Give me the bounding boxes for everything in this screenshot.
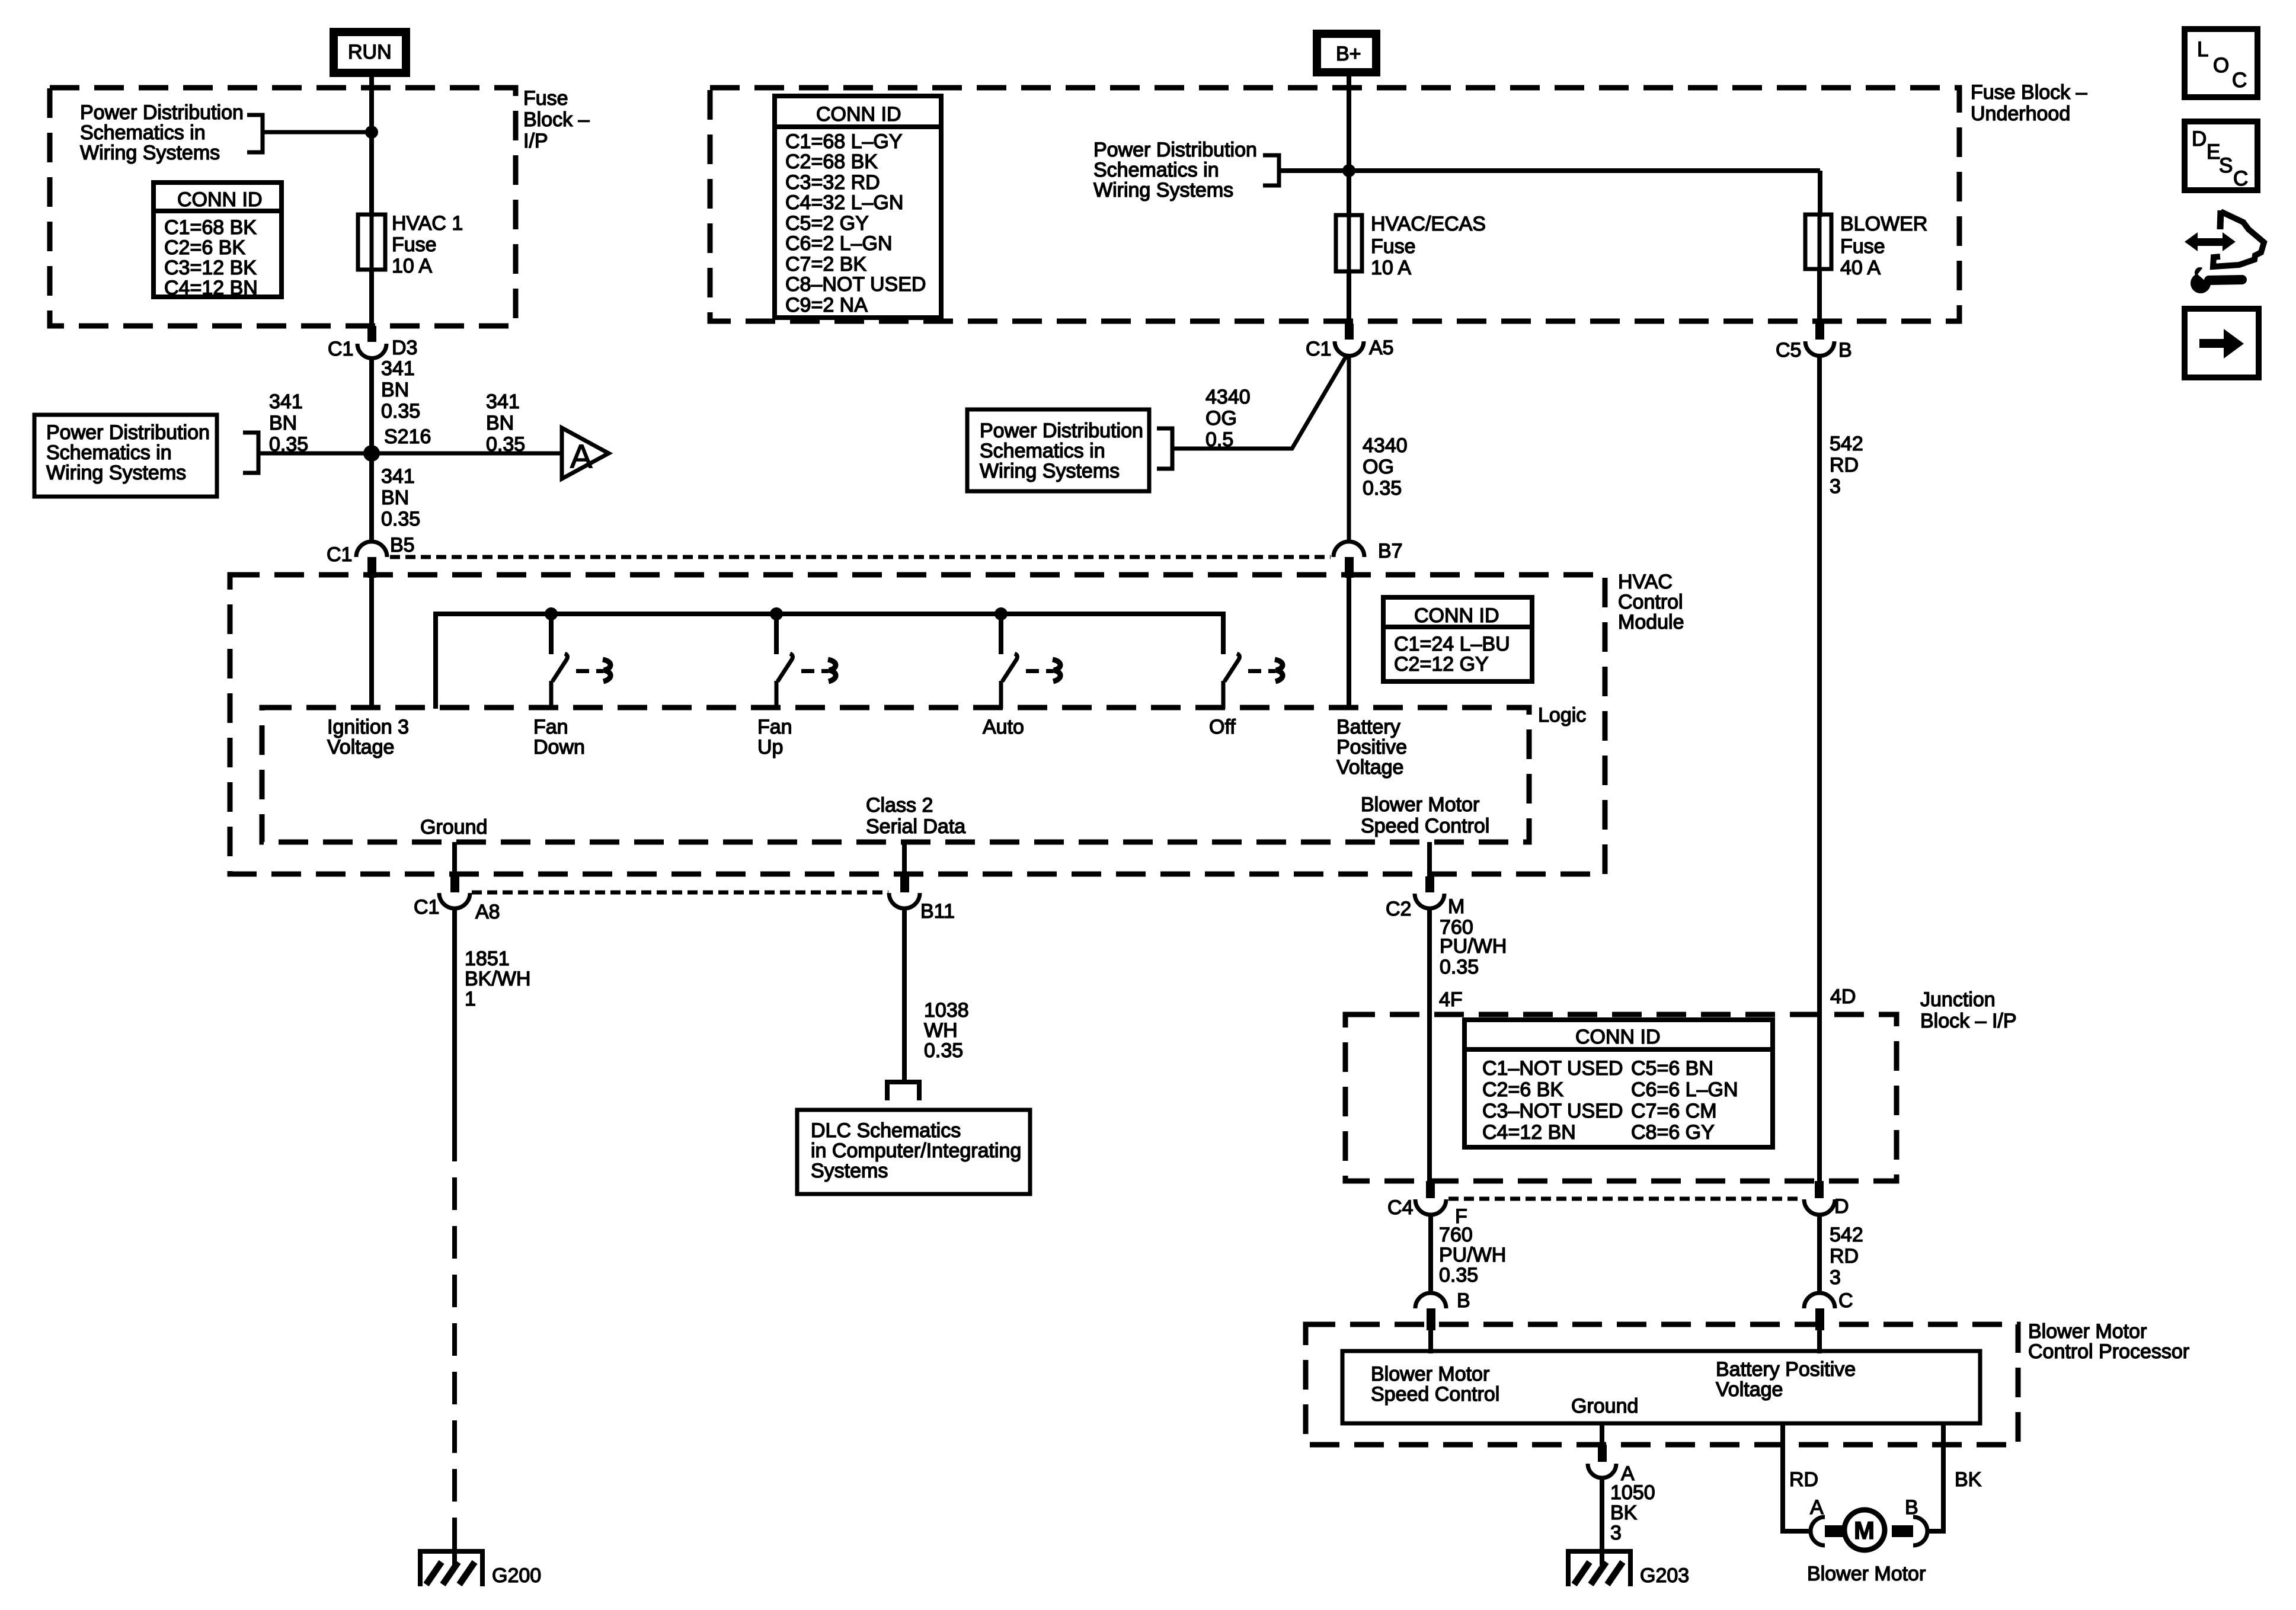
junction block I/P dashed box: [1345, 1014, 1897, 1181]
wire label 542 RD 3 upper: [1830, 433, 1863, 498]
connector C dome: [1804, 1293, 1835, 1308]
svg-text:341: 341: [381, 357, 415, 380]
svg-text:Power Distribution: Power Distribution: [1093, 139, 1257, 161]
svg-text:OG: OG: [1363, 456, 1394, 478]
blower motor speed control label: [1361, 793, 1489, 837]
connector D cup: [1804, 1199, 1835, 1215]
svg-text:C: C: [1838, 1289, 1853, 1312]
junction dot fan up: [770, 607, 783, 620]
svg-text:3: 3: [1610, 1522, 1622, 1544]
svg-text:C1: C1: [328, 338, 353, 360]
svg-text:Wiring Systems: Wiring Systems: [1093, 179, 1233, 201]
svg-text:341: 341: [486, 391, 520, 413]
svg-text:341: 341: [381, 465, 415, 488]
blower motor M: [1807, 1510, 1926, 1585]
svg-text:C: C: [2233, 167, 2248, 190]
svg-text:542: 542: [1830, 1224, 1863, 1246]
svg-text:C1: C1: [327, 543, 352, 566]
svg-text:BN: BN: [269, 412, 297, 434]
svg-text:BK: BK: [1955, 1468, 1982, 1491]
svg-text:D3: D3: [392, 337, 417, 359]
svg-text:Blower Motor: Blower Motor: [2028, 1320, 2147, 1343]
svg-text:1851: 1851: [465, 948, 510, 970]
svg-text:4D: 4D: [1830, 985, 1856, 1008]
svg-text:C4: C4: [1387, 1196, 1413, 1219]
svg-text:0.35: 0.35: [486, 433, 525, 456]
dotted harness line A8 to B11: [472, 891, 888, 895]
svg-text:Blower Motor: Blower Motor: [1361, 793, 1479, 816]
wire RD to blower motor: [1783, 1423, 1811, 1531]
wire A to G203: [1600, 1478, 1604, 1565]
fuse block underhood dashed box: [710, 88, 1959, 321]
wire B11 to DLC bracket: [902, 908, 907, 1083]
wire label 341 BN 0.35 below D3: [381, 357, 420, 422]
svg-text:C5=2 GY: C5=2 GY: [785, 212, 869, 235]
svg-text:BK: BK: [1610, 1502, 1638, 1524]
svg-text:Underhood: Underhood: [1971, 103, 2070, 125]
svg-text:A5: A5: [1369, 337, 1394, 359]
svg-text:BN: BN: [381, 486, 409, 509]
svg-text:Wiring Systems: Wiring Systems: [80, 142, 220, 164]
blower motor control processor dashed box: [1306, 1324, 2018, 1445]
svg-text:Schematics in: Schematics in: [80, 121, 206, 144]
svg-text:0.35: 0.35: [1440, 956, 1479, 978]
connector C5 B pin: [1815, 324, 1824, 340]
svg-text:4340: 4340: [1205, 386, 1251, 408]
bracket left power dist box: [243, 433, 258, 473]
svg-text:542: 542: [1830, 433, 1863, 455]
dotted harness line B5 to B7: [390, 555, 1331, 559]
wire fuse to connector D3: [369, 270, 374, 326]
svg-text:Ground: Ground: [1571, 1395, 1638, 1417]
icon forward arrow box: [2185, 309, 2259, 377]
processor pin labels: [1371, 1363, 1499, 1406]
svg-text:C4=32 L–GN: C4=32 L–GN: [785, 191, 903, 214]
svg-text:0.35: 0.35: [381, 508, 420, 530]
DLC bracket: [887, 1082, 919, 1100]
svg-text:Fan: Fan: [533, 716, 568, 738]
svg-text:Logic: Logic: [1538, 704, 1586, 726]
connector C1 A5 pin: [1345, 324, 1354, 340]
svg-text:CONN ID: CONN ID: [177, 188, 263, 211]
wire RUN box down to fuse: [369, 77, 374, 217]
RUN power feed box: [330, 28, 410, 77]
wires into processor box: [1428, 1330, 1433, 1353]
svg-text:OG: OG: [1205, 407, 1237, 430]
svg-text:Fuse: Fuse: [392, 233, 437, 256]
B+ power feed box: [1313, 30, 1380, 76]
connector C2 M cup: [1415, 894, 1444, 908]
svg-text:C6=2 L–GN: C6=2 L–GN: [785, 232, 893, 255]
connector C1 D3 pin: [367, 326, 376, 342]
power distribution box left (solid): [34, 415, 217, 497]
wire HVAC/ECAS fuse to A5: [1347, 271, 1351, 324]
svg-text:S216: S216: [384, 425, 431, 448]
dotted harness line C4 to D: [1448, 1197, 1802, 1201]
junction dot fan down: [545, 607, 558, 620]
ground G200: [420, 1551, 541, 1587]
svg-text:C2=68 BK: C2=68 BK: [785, 151, 878, 173]
svg-text:Schematics in: Schematics in: [46, 441, 172, 464]
connector C2 M pin: [1425, 876, 1434, 892]
svg-text:in Computer/Integrating: in Computer/Integrating: [811, 1140, 1021, 1162]
svg-text:S: S: [2219, 154, 2233, 177]
svg-text:RUN: RUN: [348, 41, 392, 63]
connector C1 A8 cup: [439, 893, 470, 908]
wire S216 to triangle A: [372, 452, 562, 456]
wire C5 down to D: [1817, 356, 1822, 1181]
svg-text:C1=24 L–BU: C1=24 L–BU: [1394, 633, 1510, 655]
wire A5 down to B7: [1347, 356, 1351, 542]
wire label 341 BN 0.35 right of S216: [486, 391, 525, 456]
wire label 760 PU/WH 0.35 lower: [1439, 1224, 1506, 1286]
svg-text:RD: RD: [1789, 1468, 1818, 1491]
fuse block underhood label: [1971, 81, 2087, 125]
svg-text:Wiring Systems: Wiring Systems: [980, 460, 1120, 482]
logic dashed box: [262, 708, 1529, 842]
svg-text:Voltage: Voltage: [327, 736, 394, 758]
svg-text:O: O: [2213, 54, 2229, 77]
wire D3 to splice S216: [369, 358, 374, 453]
svg-text:Junction: Junction: [1920, 988, 1996, 1011]
connector C4 F cup: [1415, 1199, 1446, 1215]
svg-text:Fuse: Fuse: [523, 87, 568, 110]
svg-text:10 A: 10 A: [1371, 257, 1411, 279]
svg-text:Wiring Systems: Wiring Systems: [46, 462, 186, 484]
connector B pin: [1427, 1308, 1435, 1330]
svg-text:E: E: [2207, 140, 2220, 164]
connector C pin: [1815, 1308, 1824, 1330]
svg-text:A: A: [1810, 1496, 1824, 1519]
svg-text:B: B: [1905, 1496, 1918, 1519]
svg-text:C2: C2: [1386, 898, 1411, 920]
wire BLOWER fuse to C5: [1817, 269, 1822, 324]
CONN ID table junction block: [1464, 1020, 1773, 1147]
svg-text:C1=68 BK: C1=68 BK: [164, 216, 257, 239]
svg-text:WH: WH: [924, 1019, 958, 1042]
svg-text:Serial Data: Serial Data: [866, 815, 965, 838]
svg-text:C2=6 BK: C2=6 BK: [164, 236, 245, 259]
bracket top-right callout: [1263, 155, 1279, 185]
BLOWER fuse: [1805, 213, 1927, 279]
svg-text:HVAC 1: HVAC 1: [392, 212, 463, 235]
fuse block I/P dashed box: [50, 88, 516, 326]
svg-text:3: 3: [1830, 1266, 1841, 1289]
svg-text:C1: C1: [414, 896, 439, 918]
svg-text:1: 1: [465, 988, 476, 1010]
svg-text:C2=6 BK: C2=6 BK: [1482, 1078, 1563, 1101]
wire label 1050 BK 3: [1610, 1481, 1655, 1544]
junction dot auto: [994, 607, 1008, 620]
svg-text:C5=6 BN: C5=6 BN: [1631, 1057, 1713, 1080]
battery positive voltage label: [1336, 716, 1407, 779]
bracket top-left callout: [247, 115, 263, 152]
icon diagnostic arrows and wrench: [2185, 210, 2264, 293]
svg-text:D: D: [2192, 127, 2207, 151]
icon DESC box: [2185, 121, 2257, 190]
svg-text:L: L: [2197, 38, 2208, 61]
svg-text:40 A: 40 A: [1840, 257, 1881, 279]
svg-text:Positive: Positive: [1336, 736, 1407, 758]
svg-text:1038: 1038: [924, 999, 969, 1022]
wire A8 to G200 solid part: [452, 908, 457, 1129]
svg-text:Fuse Block –: Fuse Block –: [1971, 81, 2087, 104]
svg-text:BN: BN: [381, 379, 409, 401]
svg-text:M: M: [1448, 895, 1464, 918]
svg-text:C3=12 BK: C3=12 BK: [164, 257, 257, 279]
switch auto: [1001, 614, 1060, 709]
svg-text:RD: RD: [1830, 1245, 1859, 1267]
svg-text:I/P: I/P: [523, 130, 548, 152]
svg-text:Fuse: Fuse: [1371, 235, 1416, 258]
power distribution callout top-right: [1093, 139, 1257, 201]
svg-text:Fan: Fan: [757, 716, 792, 738]
svg-text:Voltage: Voltage: [1716, 1378, 1783, 1401]
CONN ID table HVAC module: [1383, 597, 1532, 681]
connector C1 A8 pin: [450, 876, 459, 892]
svg-text:G203: G203: [1640, 1564, 1689, 1587]
bracket right power dist box: [1157, 428, 1172, 469]
svg-text:C8–NOT USED: C8–NOT USED: [785, 273, 926, 296]
splice S216: [363, 445, 380, 462]
svg-text:B7: B7: [1378, 540, 1403, 562]
junction block label: [1920, 988, 2017, 1032]
wire label 1851 BK/WH 1: [465, 948, 530, 1010]
processor solid box: [1342, 1351, 1980, 1423]
wire M down into junction block: [1427, 909, 1432, 1181]
svg-text:A: A: [570, 437, 593, 475]
svg-text:10 A: 10 A: [392, 255, 432, 277]
logic pin labels top row: [327, 716, 409, 758]
svg-text:C2=12 GY: C2=12 GY: [1394, 653, 1489, 676]
svg-text:341: 341: [269, 391, 303, 413]
svg-text:HVAC: HVAC: [1618, 571, 1673, 593]
svg-text:D: D: [1834, 1195, 1849, 1218]
wire label 341 BN 0.35 below S216: [381, 465, 420, 530]
motor terminal A cup: [1811, 1517, 1825, 1545]
svg-text:C3–NOT USED: C3–NOT USED: [1482, 1100, 1623, 1122]
wire BK to blower motor: [1927, 1423, 1943, 1531]
svg-text:Speed Control: Speed Control: [1371, 1383, 1499, 1406]
svg-text:B11: B11: [920, 900, 955, 923]
HVAC control module dashed box: [230, 575, 1605, 874]
switch off: [1223, 654, 1283, 709]
fuse block I/P label: [523, 87, 590, 152]
wire callout to RUN feed: [263, 130, 372, 135]
svg-text:0.35: 0.35: [269, 433, 308, 456]
svg-text:Down: Down: [533, 736, 585, 758]
connector C5 B cup: [1805, 341, 1834, 356]
svg-text:Module: Module: [1618, 611, 1684, 633]
wire bracket to S216: [258, 452, 372, 456]
wire label 760 PU/WH 0.35 upper: [1440, 916, 1507, 978]
power distribution callout top-left: [80, 101, 244, 164]
svg-text:C: C: [2232, 69, 2247, 92]
wire D to connector C: [1817, 1215, 1822, 1293]
wire bracket to blower fuse feed: [1279, 168, 1820, 173]
svg-text:M: M: [1854, 1516, 1875, 1544]
svg-text:Battery Positive: Battery Positive: [1716, 1358, 1856, 1381]
svg-text:Power Distribution: Power Distribution: [80, 101, 244, 124]
connector B dome: [1415, 1293, 1446, 1308]
svg-text:Schematics in: Schematics in: [1093, 159, 1219, 181]
power distribution box right (solid): [967, 409, 1149, 491]
svg-text:Speed Control: Speed Control: [1361, 815, 1489, 837]
svg-text:C6=6 L–GN: C6=6 L–GN: [1631, 1078, 1738, 1101]
motor terminal A pin: [1825, 1525, 1846, 1537]
connector C1 D3 cup: [357, 344, 386, 359]
svg-text:C9=2 NA: C9=2 NA: [785, 294, 868, 316]
svg-text:Class 2: Class 2: [866, 794, 933, 817]
connector B7 pin: [1345, 557, 1354, 578]
wire B7 into logic battery positive voltage: [1347, 578, 1351, 708]
svg-text:C7=2 BK: C7=2 BK: [785, 253, 866, 276]
CONN ID table fuse block underhood: [775, 96, 941, 318]
switch fan up: [776, 614, 836, 709]
svg-text:0.35: 0.35: [924, 1039, 963, 1062]
svg-text:CONN ID: CONN ID: [1575, 1026, 1661, 1048]
wire ground logic to A8: [452, 842, 457, 876]
connector B11 pin: [900, 876, 909, 892]
motor terminal B cup: [1913, 1517, 1927, 1545]
svg-text:Fuse: Fuse: [1840, 235, 1885, 258]
svg-text:4F: 4F: [1439, 988, 1463, 1011]
svg-text:BLOWER: BLOWER: [1840, 213, 1927, 235]
off-page triangle A: [562, 428, 609, 479]
connector C1 A5 cup: [1335, 341, 1364, 356]
svg-text:G200: G200: [492, 1564, 541, 1587]
switch fan down: [551, 614, 610, 709]
svg-text:C7=6 CM: C7=6 CM: [1631, 1100, 1717, 1122]
junction dot on RUN feed: [365, 126, 378, 139]
wire label 341 BN 0.35 left of S216: [269, 391, 308, 456]
svg-text:Blower Motor: Blower Motor: [1807, 1563, 1926, 1585]
wire class2 logic to B11: [902, 842, 907, 876]
svg-text:Off: Off: [1209, 716, 1236, 738]
ground G203: [1568, 1551, 1689, 1587]
svg-text:C3=32 RD: C3=32 RD: [785, 171, 880, 194]
connector C1 B5 dome: [356, 542, 387, 557]
HVAC control module label: [1618, 571, 1684, 633]
svg-text:BK/WH: BK/WH: [465, 968, 530, 990]
svg-text:C1=68 L–GY: C1=68 L–GY: [785, 130, 903, 153]
svg-text:CONN ID: CONN ID: [816, 103, 901, 126]
svg-text:BN: BN: [486, 412, 514, 434]
svg-text:760: 760: [1439, 1224, 1473, 1246]
svg-text:Auto: Auto: [983, 716, 1024, 738]
connector C4 F pin: [1426, 1181, 1435, 1198]
DLC schematics box: [797, 1110, 1030, 1194]
wire blower speed logic to C2 M: [1427, 842, 1432, 876]
wire label 4340 OG 0.5: [1205, 386, 1251, 451]
svg-text:HVAC/ECAS: HVAC/ECAS: [1371, 213, 1486, 235]
wire B+ box down to fuse: [1347, 76, 1351, 217]
svg-text:B5: B5: [390, 534, 415, 556]
svg-text:C4=12 BN: C4=12 BN: [1482, 1121, 1576, 1144]
svg-text:0.35: 0.35: [381, 400, 420, 422]
wire label 4340 OG 0.35: [1363, 434, 1408, 500]
svg-text:Ground: Ground: [420, 816, 487, 838]
wire B5 into logic ignition 3 voltage: [369, 578, 374, 708]
svg-text:4340: 4340: [1363, 434, 1408, 457]
class 2 serial data label: [866, 794, 965, 838]
svg-text:Schematics in: Schematics in: [980, 440, 1105, 462]
svg-text:3: 3: [1830, 475, 1841, 498]
svg-text:A8: A8: [475, 901, 500, 923]
svg-text:Power Distribution: Power Distribution: [980, 420, 1143, 442]
svg-text:0.35: 0.35: [1363, 477, 1402, 500]
junction dot on B+ feed: [1342, 164, 1355, 177]
svg-text:CONN ID: CONN ID: [1414, 604, 1499, 627]
connector A pin: [1598, 1445, 1607, 1462]
svg-text:C1–NOT USED: C1–NOT USED: [1482, 1057, 1623, 1080]
connector D pin: [1815, 1181, 1824, 1198]
CONN ID table fuse block I/P: [154, 183, 282, 299]
wire BLOWER fuse drop: [1818, 171, 1822, 217]
svg-text:RD: RD: [1830, 454, 1859, 476]
svg-text:Power Distribution: Power Distribution: [46, 421, 210, 444]
svg-text:Battery: Battery: [1336, 716, 1400, 738]
icon LOC box: [2185, 29, 2257, 97]
svg-text:Control: Control: [1618, 591, 1683, 613]
wire label 542 RD 3 lower: [1830, 1224, 1863, 1289]
svg-text:C5: C5: [1776, 339, 1801, 361]
wire C4 to connector B: [1428, 1215, 1433, 1293]
svg-text:C8=6 GY: C8=6 GY: [1631, 1121, 1715, 1144]
svg-text:DLC Schematics: DLC Schematics: [811, 1119, 961, 1142]
wire label 1038 WH 0.35: [924, 999, 969, 1062]
connector B11 cup: [889, 893, 920, 908]
svg-text:1050: 1050: [1610, 1481, 1655, 1504]
wire A8 to G200 dashed part: [452, 1129, 457, 1532]
svg-text:B+: B+: [1336, 43, 1361, 65]
svg-text:Block – I/P: Block – I/P: [1920, 1010, 2017, 1032]
switch bus wire: [436, 614, 1223, 709]
connector C1 B5 pin: [367, 557, 376, 578]
connector B7 dome: [1334, 542, 1364, 557]
svg-text:Voltage: Voltage: [1336, 756, 1403, 779]
wire bracket diagonal to A5: [1172, 356, 1347, 449]
svg-text:Blower Motor: Blower Motor: [1371, 1363, 1489, 1385]
svg-text:B: B: [1838, 339, 1852, 361]
connector A cup: [1588, 1464, 1616, 1478]
svg-text:Block –: Block –: [523, 108, 590, 131]
HVAC/ECAS fuse: [1336, 213, 1486, 279]
svg-text:C4=12 BN: C4=12 BN: [164, 277, 258, 299]
svg-text:PU/WH: PU/WH: [1440, 935, 1507, 958]
HVAC 1 fuse: [358, 212, 463, 277]
svg-text:Systems: Systems: [811, 1160, 888, 1182]
svg-text:Ignition 3: Ignition 3: [327, 716, 409, 738]
motor terminal B pin: [1892, 1525, 1913, 1537]
wire S216 down to B5: [369, 453, 374, 542]
svg-text:C1: C1: [1306, 338, 1331, 360]
svg-text:PU/WH: PU/WH: [1439, 1244, 1506, 1266]
wire processor ground down: [1600, 1423, 1604, 1445]
svg-text:Up: Up: [757, 736, 783, 758]
svg-text:0.35: 0.35: [1439, 1264, 1478, 1286]
svg-text:Control Processor: Control Processor: [2028, 1340, 2189, 1363]
svg-text:B: B: [1457, 1289, 1470, 1312]
blower motor control processor label: [2028, 1320, 2189, 1363]
